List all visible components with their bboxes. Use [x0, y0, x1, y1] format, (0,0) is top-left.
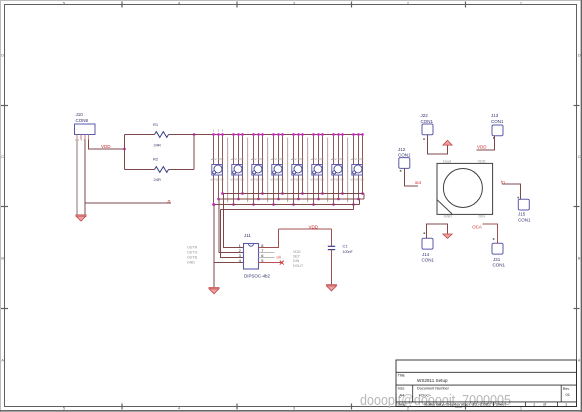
- svg-text:◂GND·DI: ◂GND·DI: [250, 178, 264, 181]
- wire LED3 middle pin vertical: [258, 135, 260, 200]
- wire rail OUTR (R1 level): [224, 193, 365, 195]
- svg-text:DIN: DIN: [277, 256, 282, 260]
- svg-text:Dout: Dout: [443, 160, 452, 164]
- svg-text:1 2 3 4: 1 2 3 4: [75, 139, 86, 142]
- wire LED8 right pin vertical: [362, 135, 364, 194]
- wire J11 pin5 stub: [259, 262, 282, 264]
- no-connect stub J11 pin6: [259, 254, 282, 258]
- junction GND rail at left drop: [213, 203, 216, 206]
- junction dots LED2 bottom rails: [232, 192, 244, 206]
- ground under J10: [76, 215, 87, 221]
- wire LED8 middle pin vertical: [358, 135, 360, 200]
- svg-text:◂GND·DI: ◂GND·DI: [290, 178, 304, 181]
- svg-text:J22: J22: [421, 113, 429, 118]
- wire J14 to ground arrow: [427, 224, 448, 239]
- wire LED3 left pin vertical: [253, 135, 255, 205]
- svg-text:DIN: DIN: [293, 259, 300, 263]
- svg-text:D: D: [578, 54, 581, 58]
- wire J22 to power arrow: [428, 135, 448, 155]
- svg-text:In: In: [501, 180, 505, 185]
- wire LED1 left pin vertical: [213, 135, 215, 205]
- junction dots LED6 bottom rails: [312, 192, 324, 206]
- connector J10 (CON8): [75, 112, 96, 142]
- svg-text:GND: GND: [187, 261, 195, 265]
- svg-text:◂5V·DO: ◂5V·DO: [351, 158, 364, 161]
- junction dots LED3 top bus: [252, 133, 264, 136]
- wire LED3 right pin vertical: [262, 135, 264, 194]
- svg-text:24R: 24R: [154, 177, 161, 182]
- wire LED2 middle pin vertical: [238, 135, 240, 200]
- LED module (WS2812 footprint): [437, 163, 493, 214]
- svg-text:A4: A4: [400, 392, 406, 397]
- wire R1/R2 left vertical: [124, 135, 126, 170]
- wire LED5 right pin vertical: [302, 135, 304, 194]
- connector J22 (CON1): [421, 113, 434, 140]
- junction dots LED1 bottom rails: [212, 192, 224, 206]
- svg-text:100nF: 100nF: [343, 250, 354, 254]
- wire hook right rail2-rail3: [359, 199, 361, 205]
- svg-text:◂5V·DO: ◂5V·DO: [291, 158, 304, 161]
- junction dots LED8 bottom rails: [352, 192, 364, 206]
- ground under C1: [326, 285, 337, 291]
- svg-text:J14: J14: [422, 252, 430, 257]
- junction dots LED7 top bus: [332, 133, 344, 136]
- svg-text:VDD: VDD: [309, 224, 319, 229]
- pin label GND on module: [444, 215, 453, 219]
- svg-text:C: C: [1, 155, 4, 159]
- svg-text:C: C: [578, 155, 581, 159]
- wire R1/R2 right vertical: [193, 135, 195, 170]
- svg-text:◂5V·DO: ◂5V·DO: [311, 158, 324, 161]
- junction dots LED1 top bus: [212, 133, 224, 136]
- wire rail1 down to J11 pin1: [224, 194, 244, 248]
- wire VDD top bus of LED array: [194, 134, 363, 136]
- net label In: [501, 180, 505, 185]
- svg-text:OUTB: OUTB: [187, 256, 198, 260]
- pin label DIN on module: [479, 215, 486, 219]
- net label VDD (right): [477, 144, 487, 149]
- svg-text:VDD: VDD: [477, 144, 487, 149]
- connector J13 (CON1): [491, 113, 504, 139]
- svg-text:SET: SET: [293, 254, 301, 258]
- wire hook right rail3-rail4: [353, 205, 355, 210]
- svg-text:R2: R2: [153, 157, 159, 162]
- svg-text:DIN: DIN: [479, 215, 486, 219]
- resistor R2: [125, 157, 195, 183]
- resistor R1: [125, 122, 169, 147]
- LED 6 (WS2811 pixel): [310, 158, 324, 181]
- svg-text:◂5V·DO: ◂5V·DO: [231, 158, 244, 161]
- wire LED1 middle pin vertical: [218, 135, 220, 200]
- wire J12 to net out: [405, 169, 419, 187]
- wire J10 pin1 to ground: [76, 140, 78, 215]
- svg-text:◂GND·DI: ◂GND·DI: [270, 178, 284, 181]
- svg-text:A: A: [578, 359, 581, 363]
- svg-text:CON1: CON1: [421, 119, 434, 124]
- svg-text:J12: J12: [398, 147, 406, 152]
- svg-text:CON1: CON1: [491, 119, 504, 124]
- wire LED5 left pin vertical: [293, 135, 295, 205]
- ground under J11: [209, 288, 220, 294]
- connector J21 (CON1): [492, 238, 505, 267]
- wire LED4 left pin vertical: [273, 135, 275, 205]
- wire LED2 left pin vertical: [233, 135, 235, 205]
- capacitor C1 100nF: [328, 244, 354, 254]
- power arrow up near J22: [443, 140, 452, 145]
- LED 1 (WS2811 pixel): [210, 158, 224, 181]
- svg-text:CON8: CON8: [76, 118, 89, 123]
- svg-text:Rev: Rev: [563, 387, 570, 391]
- svg-text:<Doc>: <Doc>: [419, 392, 431, 397]
- LED 5 (WS2811 pixel): [290, 158, 304, 181]
- wire J10 to net J5: [85, 202, 171, 204]
- svg-text:J5: J5: [167, 200, 171, 204]
- junction dots LED6 top bus: [312, 133, 324, 136]
- svg-text:◂GND·DI: ◂GND·DI: [310, 178, 324, 181]
- svg-text:◂5V·DO: ◂5V·DO: [211, 158, 224, 161]
- LED 4 (WS2811 pixel): [270, 158, 284, 181]
- wire LED6 left pin vertical: [313, 135, 315, 205]
- power arrow down near J14: [443, 234, 452, 239]
- svg-text:GND: GND: [444, 215, 453, 219]
- svg-text:CON1: CON1: [422, 258, 435, 263]
- junction dots LED4 bottom rails: [272, 192, 284, 206]
- IC J11 (DIPSOC-4b2): [244, 233, 271, 278]
- pin numbers above LED1: [213, 128, 224, 132]
- svg-text:DIPSOC-4b2: DIPSOC-4b2: [244, 273, 271, 278]
- svg-text:J13: J13: [491, 113, 499, 118]
- svg-text:24R: 24R: [154, 143, 161, 148]
- svg-text:DOUT: DOUT: [293, 264, 304, 268]
- pin numbers J11 right: [261, 243, 264, 263]
- wire J10 pin3 to ground: [84, 140, 86, 215]
- wire GND rail down to J11 pin4 and ground: [214, 205, 244, 288]
- wire LED2 right pin vertical: [242, 135, 244, 194]
- svg-text:J11: J11: [244, 233, 251, 238]
- wire LED6 right pin vertical: [322, 135, 324, 194]
- svg-text:◂5V·DO: ◂5V·DO: [271, 158, 284, 161]
- junction VDD at R1/R2 left: [123, 148, 126, 151]
- svg-text:C1: C1: [343, 244, 349, 249]
- wire rail GND (R3 level): [214, 204, 360, 206]
- connector J15 (CON1): [517, 197, 531, 223]
- no-connect X at J11 pin5: [280, 261, 284, 265]
- svg-text:◂5V·DO: ◂5V·DO: [251, 158, 264, 161]
- connector J12 (CON1): [398, 147, 411, 171]
- connector J14 (CON1): [422, 232, 435, 262]
- svg-text:Document Number: Document Number: [417, 387, 450, 391]
- wire LED8 left pin vertical: [353, 135, 355, 205]
- svg-text:WS2811 Setup: WS2811 Setup: [417, 378, 448, 383]
- junction dots LED5 top bus: [292, 133, 304, 136]
- wire LED5 middle pin vertical: [298, 135, 300, 200]
- wire VDD rail to C1: [279, 228, 332, 230]
- wire J21 to net OCA: [483, 224, 498, 244]
- wire LED7 left pin vertical: [333, 135, 335, 205]
- LED 7 (WS2811 pixel): [330, 158, 344, 181]
- LED 8 (WS2811 pixel): [350, 158, 364, 181]
- svg-text:Saturday, September 10, 2022: Saturday, September 10, 2022: [424, 401, 492, 406]
- svg-text:◂GND·DI: ◂GND·DI: [330, 178, 344, 181]
- junction dots LED7 bottom rails: [332, 192, 344, 206]
- svg-text:J15: J15: [518, 212, 526, 217]
- wire rail OUTB (R4 level): [221, 209, 354, 211]
- pin numbers J11 left: [239, 243, 242, 263]
- svg-text:J10: J10: [76, 112, 84, 117]
- wire rail OUTG (R2 level): [219, 198, 364, 200]
- LED 3 (WS2811 pixel): [250, 158, 264, 181]
- svg-text:Title: Title: [398, 373, 406, 378]
- svg-text:01: 01: [566, 392, 571, 397]
- junction dots LED4 top bus: [272, 133, 284, 136]
- wire LED4 right pin vertical: [282, 135, 284, 194]
- wire R1 right to top bus: [169, 134, 195, 136]
- svg-text:VDD: VDD: [101, 144, 111, 149]
- svg-text:◂5V·DO: ◂5V·DO: [331, 158, 344, 161]
- junction top bus at R loop: [193, 133, 196, 136]
- net label VDD (left): [101, 144, 111, 149]
- net label VDD (center): [309, 224, 319, 229]
- pin name labels J11 left: [187, 246, 198, 265]
- svg-text:CON1: CON1: [398, 153, 411, 158]
- svg-text:◂GND·DI: ◂GND·DI: [210, 178, 224, 181]
- wire LED7 middle pin vertical: [338, 135, 340, 200]
- svg-text:B: B: [578, 257, 581, 261]
- LED 2 (WS2811 pixel): [230, 158, 244, 181]
- wire VDD from J10 pin4 to resistor network: [89, 140, 125, 150]
- net label OCA: [472, 225, 482, 230]
- wire J11 pin8 to VDD rail: [259, 229, 279, 248]
- wire LED4 middle pin vertical: [278, 135, 280, 200]
- wire LED1 right pin vertical: [222, 135, 224, 194]
- pin name labels J11 right: [293, 250, 304, 268]
- junction dots LED8 top bus: [352, 133, 364, 136]
- net label J5: [167, 200, 171, 204]
- wire rail4 down to J11 pin3: [221, 210, 244, 258]
- svg-text:D: D: [1, 54, 4, 58]
- svg-text:J21: J21: [493, 257, 501, 262]
- no-connect stub J11 pin7: [259, 252, 275, 254]
- svg-text:out: out: [415, 180, 422, 185]
- wire LED7 right pin vertical: [342, 135, 344, 194]
- svg-text:1: 1: [533, 401, 535, 406]
- svg-text:OUTR: OUTR: [187, 246, 198, 250]
- svg-text:◂GND·DI: ◂GND·DI: [350, 178, 364, 181]
- svg-text:Sheet: Sheet: [496, 401, 507, 406]
- junction dots LED5 bottom rails: [292, 192, 304, 206]
- svg-text:1: 1: [565, 401, 567, 406]
- pin label Dout on module: [443, 160, 452, 164]
- wire J15 to net In: [502, 184, 521, 200]
- svg-text:OUTG: OUTG: [187, 251, 198, 255]
- wire J13 to VDD: [477, 136, 495, 151]
- data chain verticals between LEDs: [228, 138, 348, 203]
- svg-text:OCA: OCA: [472, 225, 482, 230]
- wire LED6 middle pin vertical: [318, 135, 320, 200]
- svg-text:Date:: Date:: [398, 401, 407, 406]
- wire rail2 down to J11 pin2: [219, 199, 244, 253]
- junction dots LED2 top bus: [232, 133, 244, 136]
- wire hook right rail1-rail2: [363, 194, 365, 200]
- wire VDD to C1 top: [331, 229, 333, 246]
- net label DIN at J11 pin5: [277, 256, 282, 260]
- svg-text:CON1: CON1: [518, 217, 531, 222]
- svg-text:◂GND·DI: ◂GND·DI: [230, 178, 244, 181]
- svg-text:Size: Size: [398, 387, 405, 391]
- wire C1 bottom to ground: [331, 250, 333, 285]
- net label out: [415, 180, 422, 185]
- svg-text:VDD: VDD: [478, 160, 486, 164]
- svg-text:CON1: CON1: [493, 262, 506, 267]
- pin label VDD on module: [478, 160, 486, 164]
- svg-text:R1: R1: [153, 122, 159, 127]
- junction dots LED3 bottom rails: [252, 192, 264, 206]
